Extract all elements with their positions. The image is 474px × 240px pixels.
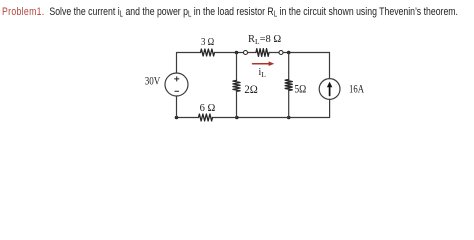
junction node: bottom of 5Ω branch [287,116,291,120]
wire: right branch bottom [289,99,330,117]
wire: 2Ω branch bottom [236,91,238,117]
svg-text:2Ω: 2Ω [244,82,257,96]
wire: 5Ω branch bottom [288,91,290,118]
svg-text:30V: 30V [145,74,161,87]
wire: 2Ω branch top [236,53,238,81]
svg-text:RL=8 Ω: RL=8 Ω [248,34,281,46]
node b: open terminal right of RL [279,51,283,55]
wire: top-left corner, V+ up to 3Ω left lead [177,53,201,74]
svg-text:6 Ω: 6 Ω [200,102,216,114]
resistor 2Ω zigzag (vertical) [233,80,240,91]
svg-text:iL: iL [259,67,267,79]
wire: terminal a to RL zigzag [248,52,256,54]
resistor 6Ω zigzag [199,114,213,121]
wire: 5Ω branch top [288,53,290,80]
junction node: top of 5Ω branch [287,51,291,55]
svg-text:3 Ω: 3 Ω [201,36,214,48]
current source arrow [329,86,331,96]
wire: bottom between 5Ω and 2Ω [237,117,289,119]
current arrow iL (red) [253,63,271,65]
voltage source minus sign [175,90,179,92]
node a: open terminal left of RL [244,51,248,55]
resistor RL zigzag [256,49,269,57]
voltage source plus sign [175,77,179,81]
junction node: bottom of 2Ω branch [235,116,239,120]
svg-text:5Ω: 5Ω [294,81,306,95]
wire: bottom between 2Ω and 6Ω [213,117,237,119]
junction node: bottom-left corner [175,116,179,120]
wire: terminal b to top-right corner [283,52,329,54]
junction node: top of 2Ω branch [235,51,239,55]
wire: left branch bottom (V- to corner) [176,96,178,118]
current source I1 16A circle [319,79,340,100]
wire: 3Ω right lead to RL left terminal [215,52,244,54]
problem statement title [2,7,458,18]
svg-text:16A: 16A [349,82,364,96]
resistor R 3Ω zigzag [201,49,215,56]
wire: right branch top [329,53,331,79]
resistor 5Ω zigzag (vertical) [285,80,292,91]
voltage source V1 30V circle [165,73,188,96]
wire: RL zigzag to terminal b [269,52,279,54]
wire: bottom-left from 6Ω to corner [177,117,199,119]
